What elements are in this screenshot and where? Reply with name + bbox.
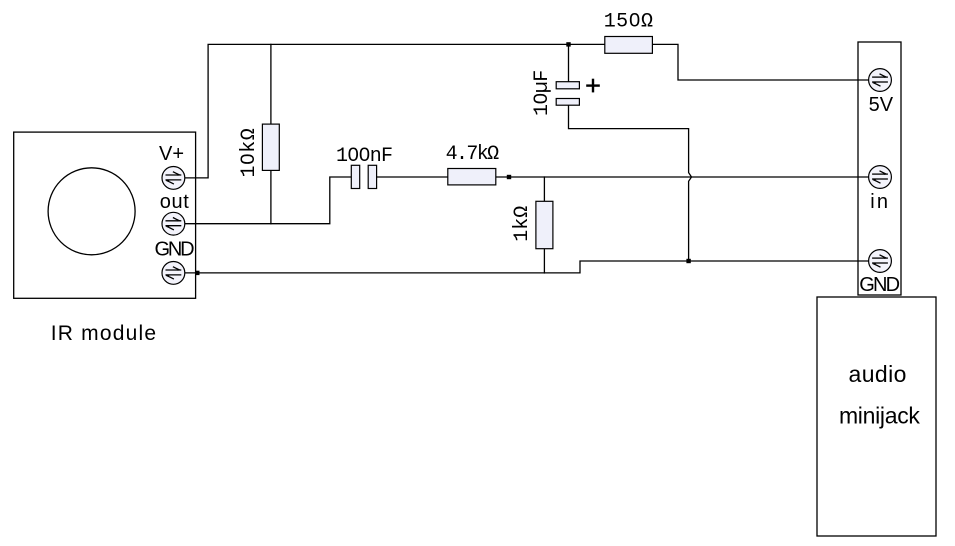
svg-text:1kΩ: 1kΩ (511, 206, 534, 242)
svg-text:150Ω: 150Ω (604, 11, 654, 34)
svg-text:GND: GND (859, 274, 899, 296)
svg-text:minijack: minijack (839, 403, 920, 429)
svg-text:IR module: IR module (51, 322, 158, 345)
svg-text:100nF: 100nF (336, 145, 392, 168)
svg-text:5V: 5V (869, 94, 894, 116)
svg-text:V+: V+ (159, 143, 184, 165)
svg-text:in: in (870, 191, 890, 213)
svg-text:4.7kΩ: 4.7kΩ (446, 143, 500, 166)
svg-text:audio: audio (849, 361, 907, 387)
svg-text:GND: GND (154, 239, 194, 261)
svg-text:out: out (160, 191, 190, 213)
svg-text:10µF: 10µF (531, 70, 554, 116)
svg-text:10kΩ: 10kΩ (238, 128, 261, 178)
